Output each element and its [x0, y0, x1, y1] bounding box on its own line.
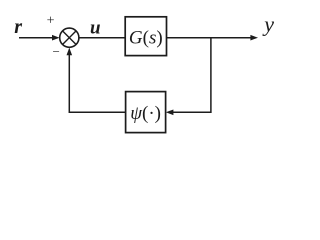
svg-text:u: u: [90, 18, 101, 39]
summing junction (circle with X): [60, 28, 79, 47]
svg-text:G(s): G(s): [129, 27, 163, 48]
svg-text:r: r: [14, 16, 22, 38]
block G(s) plant: [125, 17, 166, 56]
wire psi output left and up into summing junction: [69, 55, 125, 113]
wire branch down to feedback row: [173, 38, 211, 113]
wire r to summing junction: [19, 37, 53, 39]
wire summing junction to G(s): [79, 37, 125, 39]
svg-text:y: y: [262, 11, 274, 36]
svg-text:+: +: [47, 14, 55, 29]
wire arrow into psi block: [166, 110, 174, 116]
block psi(.) feedback nonlinearity: [126, 92, 166, 133]
svg-text:ψ(·): ψ(·): [130, 103, 161, 124]
wire G(s) to output y: [167, 37, 252, 39]
svg-text:−: −: [53, 44, 60, 59]
